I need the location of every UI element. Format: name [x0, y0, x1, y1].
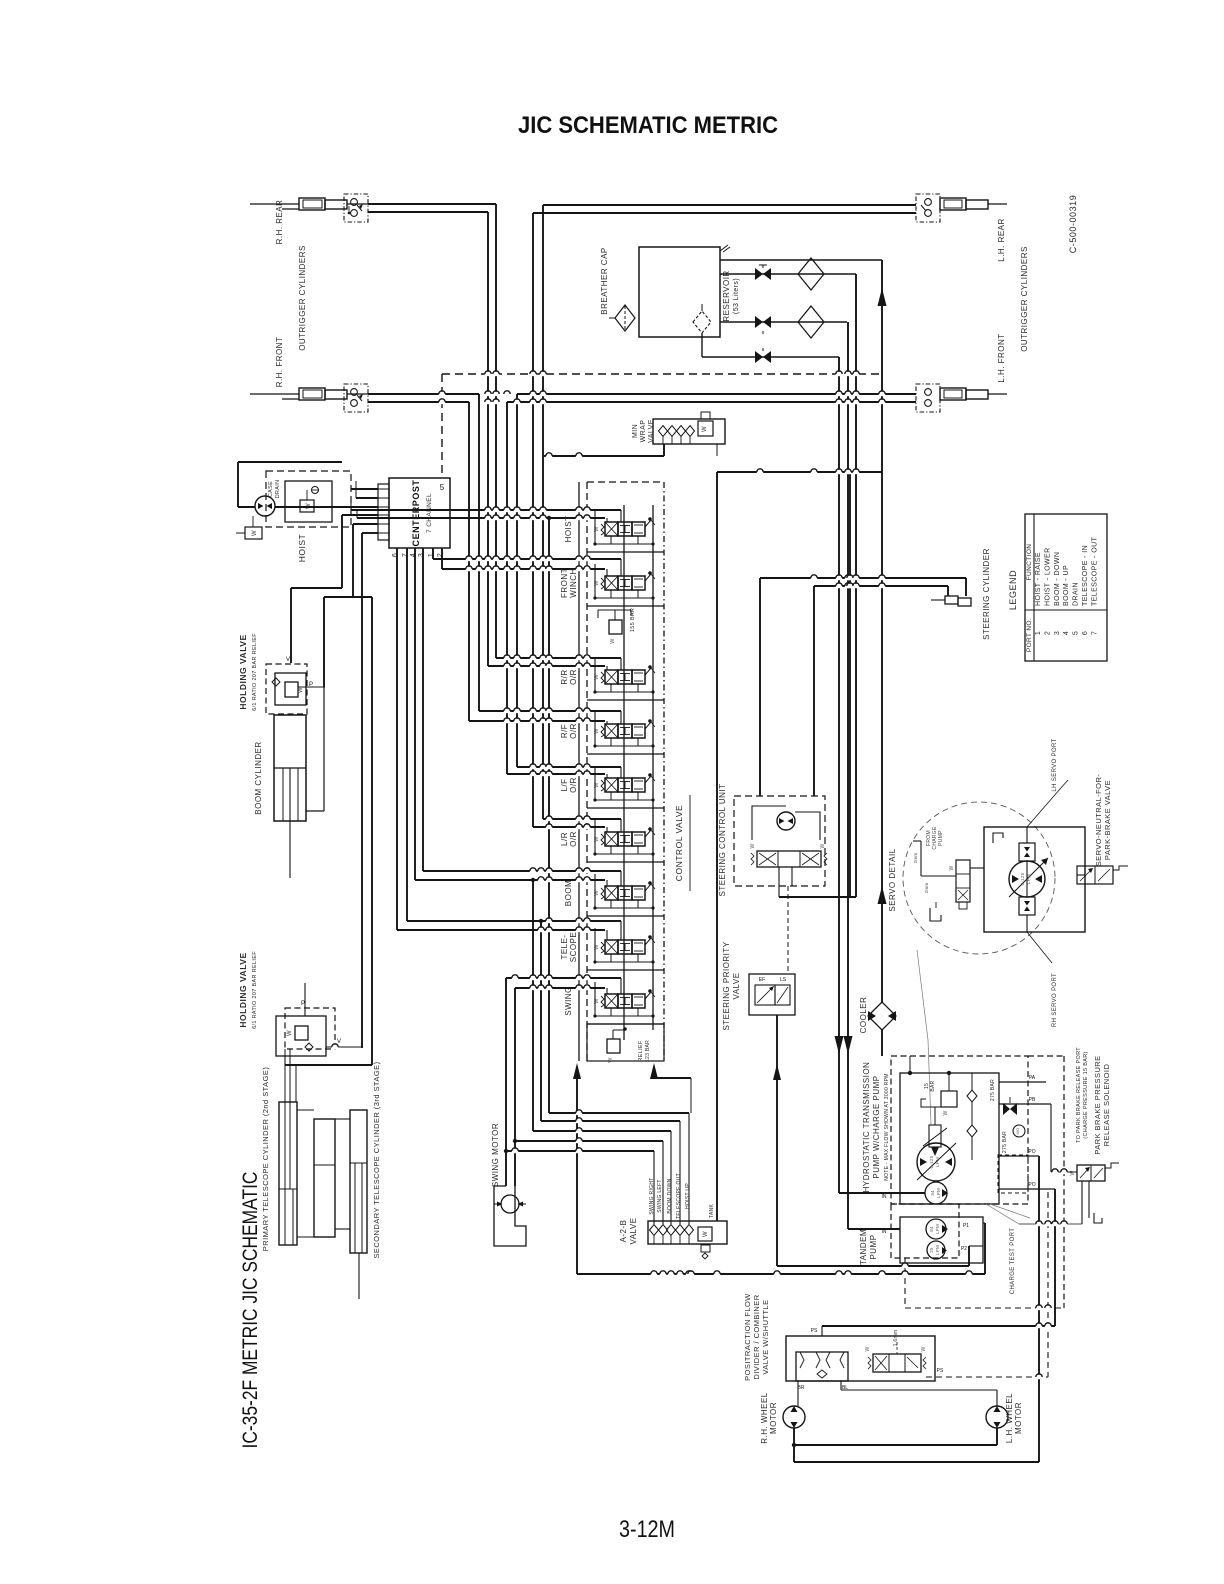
svg-text:PS: PS — [811, 1328, 818, 1334]
svg-text:(53 Liters): (53 Liters) — [733, 278, 740, 314]
wire L.H. REAR A — [543, 204, 916, 206]
wire L.H. FRONT B — [507, 401, 916, 403]
svg-text:4: 4 — [410, 553, 417, 557]
hoist motor circle — [255, 496, 275, 516]
svg-text:HOIST UP: HOIST UP — [685, 1183, 691, 1209]
dashed LS line to priority valve — [787, 886, 789, 974]
svg-text:123 BAR: 123 BAR — [645, 1040, 651, 1062]
leader LH servo port — [1027, 789, 1060, 827]
svg-text:VALVE W/SHUTTLE: VALVE W/SHUTTLE — [761, 1299, 770, 1374]
tandem pump stage 2 — [927, 1241, 945, 1259]
wire centerpost to hoist box A — [351, 488, 378, 490]
svg-text:MO: MO — [1015, 1128, 1020, 1135]
wire tank header — [717, 471, 882, 473]
wire steering unit ports down — [778, 867, 780, 897]
wire holding valve V drop — [291, 587, 342, 589]
svg-text:C-500-00319: C-500-00319 — [1068, 195, 1078, 253]
valve section FRONT WINCH — [587, 605, 664, 607]
svg-text:5: 5 — [440, 483, 445, 492]
wire L/F ports — [517, 766, 621, 768]
wire park valve outlets — [1081, 1181, 1083, 1224]
wire min wrap to left — [663, 444, 665, 456]
cylinder R.H. FRONT outrigger — [250, 393, 299, 395]
wire holding valve 2 V to bus — [326, 1046, 362, 1048]
svg-text:L.H. REAR: L.H. REAR — [997, 218, 1006, 261]
wire centerpost to telescope holding valve — [362, 532, 378, 534]
dashed PS line — [1047, 1192, 1049, 1377]
svg-text:V: V — [286, 657, 290, 663]
svg-text:COOLER: COOLER — [859, 997, 868, 1034]
positraction PS right dashed — [926, 1376, 1048, 1378]
svg-text:W: W — [703, 1231, 709, 1237]
valve section SWING — [587, 1023, 664, 1025]
svg-text:W: W — [943, 1110, 949, 1115]
holding valve telescope body — [276, 1016, 326, 1056]
svg-text:JIC SCHEMATIC METRIC: JIC SCHEMATIC METRIC — [518, 112, 778, 139]
svg-text:MOTOR: MOTOR — [1014, 1402, 1023, 1434]
wire drain bus x850 — [849, 472, 851, 897]
svg-text:LEGEND: LEGEND — [1008, 570, 1018, 610]
wire pump P1 supply to valve bank — [577, 1273, 985, 1275]
wire tap TELESCOPE OUT — [540, 921, 542, 1121]
svg-text:LPM: LPM — [936, 1188, 941, 1198]
park valve tank bracket — [1094, 1213, 1102, 1223]
svg-text:W: W — [750, 843, 756, 848]
wire R.H. REAR B — [368, 211, 488, 213]
svg-text:STEERING PRIORITY: STEERING PRIORITY — [722, 941, 731, 1030]
svg-text:LPM: LPM — [935, 1157, 940, 1167]
svg-text:CHARGE TEST PORT: CHARGE TEST PORT — [1010, 1228, 1016, 1294]
hoist motor shaft wire — [275, 506, 378, 508]
flow arrow bank inlet left — [573, 1063, 581, 1079]
main variable pump — [917, 1143, 955, 1181]
svg-text:TELESCOPE - OUT: TELESCOPE - OUT — [1091, 536, 1098, 606]
holding valve boom dashed box — [266, 664, 307, 714]
centerpost pin 3 wire to BOOM A — [422, 548, 424, 871]
tandem pump dashed box — [891, 1204, 959, 1258]
svg-text:NOTE - MAX FLOW SHOWN AT 3000: NOTE - MAX FLOW SHOWN AT 3000 RPM — [884, 1073, 890, 1181]
gate valve suction — [755, 351, 763, 363]
servo tank bracket — [930, 908, 941, 921]
svg-text:W: W — [865, 1346, 871, 1351]
servo detail pump box — [984, 827, 1085, 932]
hydrostatic inner box — [900, 1073, 999, 1204]
svg-text:BOOM - UP: BOOM - UP — [1063, 565, 1070, 606]
svg-text:IC-35-2F METRIC JIC SCHEMATIC: IC-35-2F METRIC JIC SCHEMATIC — [239, 1172, 262, 1449]
svg-text:2mm: 2mm — [913, 853, 918, 864]
svg-text:2: 2 — [437, 553, 444, 557]
svg-text:O/R: O/R — [569, 777, 578, 793]
wire reservoir suction — [701, 333, 703, 357]
valve section BOOM — [587, 915, 664, 917]
wire centerpost pin to holding valve V — [342, 514, 378, 516]
svg-text:SWING LEFT: SWING LEFT — [657, 1179, 663, 1213]
wire secondary cylinder rod out — [358, 1253, 360, 1299]
swing motor circle — [501, 1195, 519, 1213]
A-2-B valve — [648, 1221, 727, 1244]
centerpost pin 4 wire to BOOM B — [414, 548, 416, 880]
breather cap filter — [615, 305, 635, 331]
wire reservoir return mid — [720, 273, 856, 275]
hydrostatic port PB — [999, 1103, 1051, 1105]
park brake release solenoid valve — [1077, 1165, 1105, 1181]
wire BR port — [797, 1381, 799, 1406]
svg-text:STEERING CONTROL UNIT: STEERING CONTROL UNIT — [718, 784, 727, 897]
svg-text:BAR: BAR — [930, 1080, 936, 1091]
wire priority valve EF down — [776, 1015, 778, 1266]
valve block L.H. FRONT pilot checks — [916, 384, 940, 412]
wire drain bus x856 — [855, 274, 857, 897]
svg-text:LPM: LPM — [935, 1245, 940, 1255]
svg-text:6: 6 — [1082, 631, 1089, 635]
leader servo circle to transmission — [917, 950, 928, 1040]
svg-text:HOLDING VALVE: HOLDING VALVE — [238, 634, 248, 709]
positraction outer box — [786, 1336, 935, 1381]
svg-text:1.6mm: 1.6mm — [893, 1330, 899, 1347]
flow divider combiner — [796, 1352, 848, 1381]
wire R/R ports — [496, 657, 621, 659]
positraction PS top port — [821, 1326, 823, 1336]
svg-text:CASE: CASE — [268, 481, 274, 497]
wire bus R.H. REAR A down — [495, 204, 497, 658]
wire A2B branch HOIST UP — [549, 1112, 689, 1114]
main relief valve 155 bar — [609, 620, 622, 634]
svg-text:IN: IN — [882, 1194, 887, 1200]
svg-text:W: W — [921, 1346, 927, 1351]
svg-text:P: P — [309, 682, 313, 688]
reservoir 53 liters — [639, 247, 720, 337]
boom cylinder — [274, 715, 306, 821]
hoist case drain port — [245, 527, 262, 539]
svg-text:HOIST: HOIST — [564, 516, 573, 543]
hydrostatic top feed — [909, 1056, 911, 1073]
servo cylinder — [929, 1125, 941, 1147]
svg-text:MIN: MIN — [632, 424, 639, 438]
svg-text:7: 7 — [1091, 631, 1098, 635]
filter return lower — [798, 306, 824, 338]
wire bus R.H. FRONT A down — [478, 394, 480, 711]
wire bus R.H. REAR B down — [487, 212, 489, 666]
svg-text:DRAIN: DRAIN — [275, 480, 281, 499]
svg-text:HOIST - RAISE: HOIST - RAISE — [1035, 552, 1042, 606]
svg-text:HOIST: HOIST — [297, 534, 307, 563]
svg-text:275 BAR: 275 BAR — [1002, 1131, 1008, 1153]
svg-text:CONTROL VALVE: CONTROL VALVE — [674, 805, 684, 881]
wire wheel motor return loop — [793, 1428, 795, 1462]
svg-text:PO: PO — [1028, 1149, 1035, 1155]
holding valve telescope dashed box — [285, 1008, 335, 1049]
centerpost 7 channel — [389, 478, 450, 548]
servo variable motor — [1009, 861, 1045, 897]
svg-text:IN: IN — [882, 1229, 887, 1235]
hydrostatic port PO lower — [999, 1188, 1055, 1190]
wire reservoir return lower — [720, 321, 847, 323]
svg-text:FRONT: FRONT — [560, 568, 569, 598]
svg-text:W: W — [1070, 1170, 1076, 1175]
wire BL port — [840, 1381, 842, 1390]
wire bus L.H. FRONT B down — [506, 402, 508, 774]
svg-text:5: 5 — [1073, 631, 1080, 635]
servo detail dashed circle — [903, 802, 1055, 954]
svg-text:TELESCOPE - IN: TELESCOPE - IN — [1082, 545, 1089, 606]
svg-text:O/R: O/R — [569, 831, 578, 847]
svg-text:EF: EF — [759, 977, 765, 983]
flow arrows charge supply — [835, 1036, 844, 1054]
suction strainer — [693, 311, 711, 333]
min wrap valve — [653, 419, 725, 444]
wire swing port A to swing motor — [506, 977, 621, 979]
wire A2B branch BOOM DOWN — [533, 1130, 671, 1132]
wire bus L.H. REAR A down — [542, 205, 544, 819]
wire bus L.H. REAR B down — [532, 213, 534, 827]
servo check valve lower — [1019, 897, 1035, 915]
wire centerpost to hoist box B — [356, 497, 378, 499]
holding valve boom body — [275, 673, 306, 705]
svg-text:POSITRACTION FLOW: POSITRACTION FLOW — [743, 1293, 752, 1381]
cooler — [868, 1002, 896, 1030]
control valve internal gallery B — [652, 505, 654, 1030]
wire A2B branch TELESCOPE OUT — [541, 1120, 680, 1122]
hoist brake valve — [300, 500, 314, 512]
wire swing port B to swing motor — [515, 987, 605, 989]
steering valve 3-position — [757, 851, 821, 867]
svg-text:W: W — [702, 426, 708, 432]
svg-text:0-125: 0-125 — [929, 1155, 934, 1168]
wire min wrap right port — [716, 444, 718, 456]
svg-text:7: 7 — [402, 553, 409, 557]
svg-text:L.H. WHEEL: L.H. WHEEL — [1005, 1393, 1014, 1443]
svg-text:BREATHER CAP: BREATHER CAP — [600, 247, 609, 314]
valve section L/R O/R — [587, 861, 664, 863]
wire L.H. REAR B — [533, 212, 916, 214]
svg-text:DIVIDER / COMBINER: DIVIDER / COMBINER — [752, 1294, 761, 1379]
wire holding valve 2 bottom loop — [285, 1064, 372, 1066]
charge check diamonds — [967, 1090, 977, 1102]
svg-text:LS: LS — [780, 977, 787, 983]
servo control valve stack — [956, 860, 970, 902]
high pressure relief 275 bar — [1003, 1103, 1010, 1115]
control valve internal gallery A — [623, 505, 625, 1040]
svg-text:PA: PA — [1029, 1075, 1036, 1081]
svg-text:2mm: 2mm — [924, 883, 929, 894]
svg-text:(CHARGE PRESSURE 15 BAR): (CHARGE PRESSURE 15 BAR) — [1083, 1051, 1089, 1138]
svg-text:TELE-: TELE- — [560, 934, 569, 959]
wire crossing hops — [493, 372, 499, 376]
svg-text:3: 3 — [418, 553, 425, 557]
gate valve return lower — [755, 316, 763, 328]
valve section TELE- SCOPE — [587, 969, 664, 971]
svg-text:25: 25 — [929, 1247, 934, 1253]
wire A2B branch SWING LEFT — [515, 1140, 663, 1142]
svg-text:3: 3 — [1054, 631, 1061, 635]
hydrostatic transmission dashed box — [891, 1056, 1028, 1204]
svg-text:L/F: L/F — [560, 779, 569, 792]
svg-text:SWING: SWING — [564, 986, 573, 1016]
dashed boundary drop to centerpost pin 5 — [441, 374, 443, 478]
wire tap HOIST UP — [548, 518, 550, 1113]
svg-text:W: W — [298, 687, 304, 693]
swing motor body — [494, 1186, 526, 1246]
svg-text:PO: PO — [1028, 1182, 1035, 1188]
svg-text:HOIST - LOWER: HOIST - LOWER — [1044, 547, 1051, 606]
svg-text:SWING MOTOR: SWING MOTOR — [491, 1123, 500, 1187]
svg-text:PORT NO.: PORT NO. — [1026, 618, 1033, 652]
servo park brake pilot valve — [1077, 866, 1113, 884]
svg-text:L/R: L/R — [560, 832, 569, 846]
svg-text:PARK BRAKE PRESSURE: PARK BRAKE PRESSURE — [1093, 1055, 1102, 1154]
svg-text:P2: P2 — [961, 1246, 967, 1252]
svg-text:A-2-B: A-2-B — [619, 1220, 628, 1243]
svg-text:L.H. FRONT: L.H. FRONT — [997, 333, 1006, 382]
centerpost pin 2 wire to winch B — [441, 548, 443, 569]
wire park brake feed — [1051, 1171, 1077, 1173]
svg-text:RH SERVO PORT: RH SERVO PORT — [1052, 973, 1058, 1027]
svg-text:0-125: 0-125 — [1020, 872, 1025, 885]
flow arrow priority line — [773, 1064, 781, 1080]
tandem pump stage 1 — [926, 1219, 946, 1239]
wire reservoir return upper — [720, 259, 882, 261]
valve section HOIST — [587, 551, 664, 553]
svg-text:OUTRIGGER CYLINDERS: OUTRIGGER CYLINDERS — [298, 245, 307, 351]
wire R.H. REAR A — [368, 203, 496, 205]
svg-text:SWING RIGHT: SWING RIGHT — [649, 1177, 655, 1214]
svg-text:BOOM CYLINDER: BOOM CYLINDER — [254, 741, 263, 814]
svg-text:TO PARK BRAKE RELEASE PORT: TO PARK BRAKE RELEASE PORT — [1076, 1047, 1082, 1143]
wire tandem pump inlet — [848, 1228, 900, 1230]
wire L/R ports — [543, 818, 621, 820]
hoist motor inner box — [285, 481, 332, 522]
wire R/F ports — [479, 710, 621, 712]
svg-text:MOTOR: MOTOR — [769, 1402, 778, 1434]
steering cylinder — [945, 596, 958, 604]
steering priority valve — [749, 974, 795, 1015]
wire centerpost pin to holding valve P — [353, 523, 378, 525]
wire A2B branch SWING RIGHT — [506, 1150, 654, 1152]
svg-text:WINCH: WINCH — [569, 568, 578, 598]
svg-text:LH SERVO PORT: LH SERVO PORT — [1052, 738, 1058, 791]
svg-text:DRAIN: DRAIN — [1073, 582, 1080, 606]
svg-text:O/R: O/R — [569, 723, 578, 739]
svg-text:6/1 RATIO 207 BAR RELIEF: 6/1 RATIO 207 BAR RELIEF — [252, 633, 258, 711]
servo valve piping — [921, 875, 956, 877]
svg-text:275 BAR: 275 BAR — [990, 1079, 996, 1101]
wire servo box to park valve — [1077, 874, 1085, 876]
svg-text:W: W — [610, 638, 616, 644]
svg-text:7 CHANNEL: 7 CHANNEL — [426, 493, 433, 533]
svg-text:6/1 RATIO 207 BAR RELIEF: 6/1 RATIO 207 BAR RELIEF — [252, 951, 258, 1029]
hoist motor dashed enclosure — [266, 471, 351, 527]
wire steering drain to bus — [779, 896, 856, 898]
gate valve return mid — [755, 268, 763, 280]
svg-text:6: 6 — [392, 553, 399, 557]
valve section R/R O/R — [587, 699, 664, 701]
bank bottom inlet box — [587, 1024, 664, 1061]
wire tap BOOM DOWN — [532, 880, 534, 1131]
steering control unit dashed box — [734, 796, 825, 886]
valve block R.H. FRONT pilot checks — [344, 384, 368, 412]
wire R.H. FRONT A — [368, 393, 479, 395]
svg-text:BOOM - DOWN: BOOM - DOWN — [1054, 552, 1061, 606]
svg-text:SERVO-NEUTRAL-FOR-: SERVO-NEUTRAL-FOR- — [1094, 774, 1103, 867]
centerpost pin 7 wire to TELE A — [406, 548, 408, 921]
svg-text:4: 4 — [1063, 631, 1070, 635]
primary telescope cylinder — [279, 1102, 297, 1245]
svg-text:PRIMARY TELESCOPE CYLINDER (2n: PRIMARY TELESCOPE CYLINDER (2nd STAGE) — [261, 1067, 270, 1252]
svg-text:3-12M: 3-12M — [619, 1516, 675, 1543]
wire steering cylinder line B — [814, 585, 948, 587]
svg-text:PUMP: PUMP — [869, 1234, 878, 1259]
servo check valve upper — [1019, 843, 1035, 861]
svg-text:VALVE: VALVE — [732, 972, 741, 999]
svg-text:84: 84 — [929, 1226, 934, 1232]
cylinder L.H. FRONT outrigger — [940, 388, 966, 400]
cylinder L.H. REAR outrigger — [940, 198, 966, 210]
filter return mid — [798, 258, 824, 290]
svg-text:R.H. FRONT: R.H. FRONT — [275, 337, 284, 388]
svg-text:VALVE: VALVE — [629, 1217, 638, 1244]
legend table — [1025, 514, 1107, 661]
control valve dashed enclosure — [586, 482, 588, 1061]
svg-text:R/R: R/R — [560, 669, 569, 684]
svg-text:155 BAR: 155 BAR — [630, 608, 636, 632]
svg-text:SECONDARY TELESCOPE CYLINDER (: SECONDARY TELESCOPE CYLINDER (3rd STAGE) — [372, 1061, 381, 1258]
wire charge pump inlet — [839, 1192, 925, 1194]
svg-text:RESERVOIR: RESERVOIR — [722, 270, 731, 321]
secondary telescope cylinder — [350, 1110, 367, 1253]
wire drain bus x848 — [847, 322, 849, 1229]
svg-text:R.H. WHEEL: R.H. WHEEL — [760, 1392, 769, 1444]
hydrostatic port PA — [999, 1081, 1046, 1083]
shuttle spool valve — [873, 1354, 921, 1372]
svg-text:STEERING CYLINDER: STEERING CYLINDER — [982, 548, 991, 640]
primary telescope rods — [284, 1049, 286, 1189]
svg-text:TELESCOPE OUT: TELESCOPE OUT — [676, 1173, 682, 1219]
hydrostatic dashed service box — [998, 1155, 1028, 1193]
svg-text:P1: P1 — [963, 1223, 969, 1229]
wire PO upper loop down — [1038, 1156, 1040, 1462]
flow arrow return bus lower — [878, 886, 887, 904]
wire holding valve P drop — [324, 596, 372, 598]
R.H. wheel motor — [783, 1406, 805, 1428]
wire boom cylinder rod side — [306, 810, 324, 812]
centerpost pin 6 wire to TELE B — [396, 548, 398, 930]
svg-text:FUNCTION: FUNCTION — [1026, 544, 1033, 581]
svg-text:34: 34 — [930, 1190, 935, 1196]
hoist motor top loop — [237, 462, 239, 507]
svg-text:W: W — [608, 1057, 614, 1063]
svg-text:PARK-BRAKE VALVE: PARK-BRAKE VALVE — [1103, 780, 1112, 860]
svg-text:W: W — [820, 843, 826, 848]
L.H. wheel motor — [986, 1406, 1008, 1428]
wire steering cylinder line A — [760, 577, 966, 579]
wire R.H. FRONT B — [368, 401, 469, 403]
charge pump — [925, 1182, 947, 1204]
servo L bracket — [993, 833, 1003, 843]
centerpost pin 1 wire to winch A — [432, 548, 434, 559]
wire stage 3 link — [335, 1118, 350, 1120]
svg-text:1: 1 — [1035, 631, 1042, 635]
svg-text:WRAP: WRAP — [640, 420, 647, 443]
svg-text:BOOM DOWN: BOOM DOWN — [667, 1178, 673, 1213]
wire PO lower to positraction top — [1054, 1189, 1056, 1326]
wire L.H. FRONT A — [517, 393, 916, 395]
svg-text:PB: PB — [1029, 1097, 1036, 1103]
svg-text:BR: BR — [798, 1385, 805, 1391]
valve section L/F O/R — [587, 807, 664, 809]
svg-text:O/R: O/R — [569, 669, 578, 685]
wire hoist module port A — [351, 509, 621, 511]
svg-text:RELEASE SOLENOID: RELEASE SOLENOID — [1102, 1064, 1111, 1147]
